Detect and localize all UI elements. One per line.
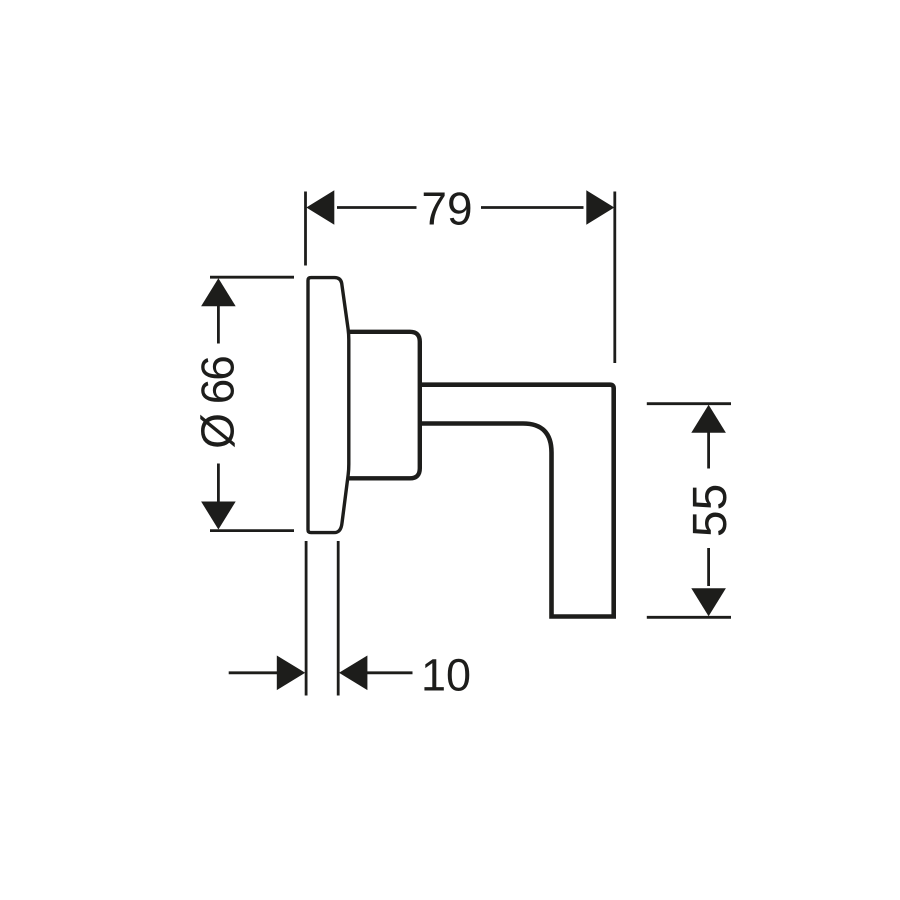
dim Ø66: vertical line lower segment bbox=[217, 464, 220, 503]
dim 79: right arrowhead bbox=[586, 190, 614, 225]
dim 10: left arrowhead (pointing right) bbox=[277, 656, 305, 691]
dim 10: left tail line bbox=[229, 671, 278, 674]
svg-text:55: 55 bbox=[684, 484, 737, 537]
dim Ø66: bottom tick line bbox=[210, 529, 294, 532]
dim 79: dimension line right segment bbox=[481, 206, 584, 209]
dim Ø66: bottom arrowhead bbox=[201, 502, 236, 530]
dim Ø66: top tick line bbox=[210, 276, 294, 279]
dim 10: left extension line bbox=[305, 541, 308, 696]
dim Ø66: vertical line upper segment bbox=[217, 306, 220, 344]
dim 79: dimension line left segment bbox=[337, 206, 417, 209]
dim 55: bottom arrowhead bbox=[691, 588, 726, 616]
dim 79: right extension line bbox=[613, 192, 616, 364]
dim 55: top arrowhead bbox=[691, 405, 726, 433]
svg-text:79: 79 bbox=[421, 183, 472, 235]
dim 55: vertical line upper segment bbox=[707, 432, 710, 469]
dim 10: right tail line bbox=[367, 671, 413, 674]
dim Ø66: top arrowhead bbox=[201, 278, 236, 306]
dim 10: right arrowhead (pointing left) bbox=[339, 656, 367, 691]
escutcheon (wall plate, side profile) bbox=[308, 278, 349, 533]
dim 55: top tick line bbox=[647, 402, 731, 405]
dim 55: vertical line lower segment bbox=[707, 548, 710, 586]
lever handle bbox=[420, 385, 614, 617]
dim 79: left arrowhead bbox=[306, 190, 334, 225]
svg-text:Ø 66: Ø 66 bbox=[192, 357, 244, 449]
dim 10: right extension line bbox=[337, 541, 340, 696]
dim 55: bottom tick line bbox=[647, 616, 731, 619]
svg-text:10: 10 bbox=[421, 650, 471, 701]
hub cone bbox=[349, 332, 420, 479]
dim 79: left extension line bbox=[304, 192, 307, 266]
